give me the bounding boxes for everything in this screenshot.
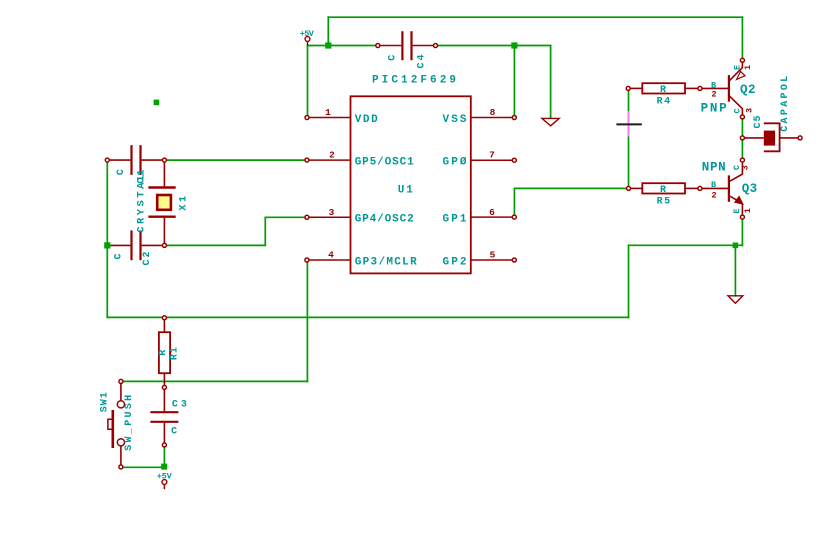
svg-text:GP5/OSC1: GP5/OSC1 [355,157,414,169]
svg-text:Q2: Q2 [740,83,756,97]
svg-text:1: 1 [325,107,331,118]
wire down to ground near VSS [550,46,552,118]
svg-text:2: 2 [712,190,717,200]
capacitor C4 [376,31,438,60]
wire C3 bottom drop [163,445,165,467]
svg-text:C: C [114,253,125,259]
wire junction down to U1 pin 8 [513,46,515,118]
svg-text:R1: R1 [169,347,180,360]
U1 pin 7 [471,158,517,162]
svg-text:VDD: VDD [355,114,378,126]
crystal X1 [148,162,175,243]
ground near VSS [542,118,559,125]
svg-text:U1: U1 [398,185,413,197]
cursor tick black [617,123,640,125]
capacitor C3 [150,389,178,447]
ground bottom right [728,296,743,303]
svg-text:PIC12F629: PIC12F629 [372,75,456,87]
switch SW1 SW_PUSH [108,379,125,469]
junction at top bus / +5V rail [325,42,331,48]
svg-text:CAPAPOL: CAPAPOL [780,76,791,132]
U1 pin 1 [305,116,351,120]
wire highlighted segment magenta [628,112,630,136]
svg-text:CRYSTAL: CRYSTAL [135,174,147,233]
svg-text:GP2: GP2 [443,256,467,268]
junction at C4 right / VSS [511,42,517,48]
svg-text:3: 3 [329,207,335,218]
wire X1 top / C1 to U1 pin 2 [164,159,307,161]
wire U1 pin 6 riser [513,188,515,217]
op-amp U1 PIC12F629 body [351,96,471,273]
wire Q2 collector to Q3 collector through C5 [741,117,743,160]
stray junction dot [154,100,160,106]
junction at Q3 emitter ground tap [733,243,739,249]
wire top bus +5V horizontal [328,16,742,18]
svg-text:C5: C5 [753,116,764,129]
wire Q3 emitter down [741,217,743,245]
capacitor C5 CAPAPOL [740,123,802,151]
svg-text:Q3: Q3 [742,182,758,196]
U1 pin 3 [305,215,351,219]
svg-text:C2: C2 [142,252,153,266]
capacitor C2 [109,230,166,260]
svg-text:R: R [660,85,666,96]
svg-text:C: C [388,55,399,61]
junction at C3 bottom / +5V [161,464,167,470]
power +5V bottom [157,472,173,490]
svg-text:1: 1 [743,65,753,70]
junction at C2 left [104,242,110,248]
svg-text:E: E [732,209,742,214]
svg-text:NPN: NPN [702,161,726,175]
U1 pin 4 [305,258,351,262]
svg-text:C: C [171,427,177,438]
wire C1 left to C2 left vertical [106,160,108,317]
svg-text:5: 5 [490,250,496,261]
svg-text:C4: C4 [417,55,428,69]
svg-text:R4: R4 [657,96,671,107]
wire ground net right riser [628,245,630,317]
wire +5V down to U1 pin 1 [307,46,309,118]
wire U1 pin 4 down [306,260,308,381]
svg-text:GPØ: GPØ [443,157,467,169]
U1 pin 2 [305,158,351,162]
svg-text:GP4/OSC2: GP4/OSC2 [355,214,414,226]
svg-text:GP3/MCLR: GP3/MCLR [355,256,417,268]
wire U1 pin 3 to X1 bottom / C2 [164,217,307,245]
resistor R4 [626,83,702,93]
wire top bus left drop [327,17,329,45]
resistor R1 [159,316,170,390]
svg-text:3: 3 [744,108,754,113]
svg-text:GP1: GP1 [443,214,467,226]
power +5V top [300,29,315,46]
svg-text:SW_PUSH: SW_PUSH [124,395,135,451]
svg-text:3: 3 [741,165,751,170]
svg-text:4: 4 [328,250,334,261]
svg-text:R: R [660,185,666,196]
U1 pin 8 [471,116,517,120]
resistor R5 [627,183,702,193]
svg-text:R: R [158,350,169,356]
transistor Q3 NPN [702,158,745,219]
svg-text:2: 2 [329,150,335,161]
wire SW1 bottom to C3 bottom [121,466,165,468]
svg-text:VSS: VSS [443,114,467,126]
svg-text:8: 8 [490,107,496,118]
wire ground net to Q3 emitter [629,244,743,246]
svg-text:7: 7 [489,150,495,161]
wire C4 right to ground corner [436,45,551,47]
capacitor C1 [105,145,166,175]
wire R4 to R5 vertical [628,88,630,188]
wire pin 6 to R5 [514,187,628,189]
wire top bus right drop to Q2 emitter [741,17,743,60]
svg-text:1: 1 [743,208,753,213]
transistor Q2 PNP [702,58,745,119]
svg-text:C: C [732,108,742,113]
svg-text:2: 2 [712,89,717,99]
wire ground stub to ground symbol [734,245,736,295]
svg-text:R5: R5 [657,196,671,207]
svg-text:E: E [733,65,743,70]
svg-text:B: B [711,180,716,190]
svg-text:C: C [116,169,127,175]
svg-text:SW1: SW1 [99,392,110,412]
wire ground net long horizontal [107,316,628,318]
svg-text:PNP: PNP [701,101,727,115]
svg-text:6: 6 [489,207,495,218]
wire +5V to C4 left [308,45,378,47]
wire MCLR horizontal to SW1 [121,380,308,382]
U1 pin 6 [471,215,517,219]
U1 pin 5 [471,258,517,262]
